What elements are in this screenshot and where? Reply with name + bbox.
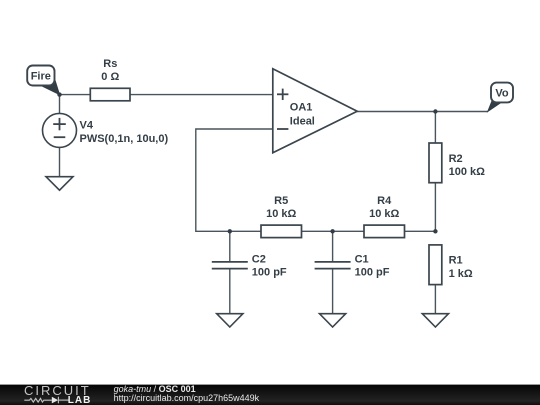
svg-text:Fire: Fire [31,71,51,83]
op-amp OA1 [273,69,357,153]
footer bar [0,385,540,405]
svg-text:Vo: Vo [495,88,509,100]
wire op-amp output to Vo [357,111,488,113]
junction R1-R2/rail [433,229,437,233]
node junction at Fire/V4 [57,92,61,96]
svg-text:100 pF: 100 pF [252,267,287,279]
svg-text:OA1: OA1 [290,101,313,113]
svg-text:C1: C1 [355,253,369,265]
svg-text:C2: C2 [252,253,266,265]
capacitor C1 [315,253,390,278]
wire V4 bottom to ground [59,147,61,176]
wire C1 top [332,231,334,262]
junction C1/rail [330,229,334,233]
wire feedback: op-amp minus input, down, and bottom rail [196,129,436,231]
wire V4 top (node to source) [59,95,61,114]
voltage source V4 [43,113,169,147]
resistor R2 [429,143,485,183]
ground (below R1) [422,314,448,327]
svg-text:Ideal: Ideal [290,116,315,128]
node label Vo [488,83,513,112]
wire C2 top [229,231,231,262]
ground (below V4) [46,177,73,191]
resistor R5 [261,195,302,238]
ground (below C1) [320,314,346,327]
svg-text:PWS(0,1n, 10u,0): PWS(0,1n, 10u,0) [80,133,169,145]
svg-text:Rs: Rs [103,58,117,70]
wire R2 bottom [434,183,436,232]
resistor R4 [364,195,405,238]
svg-text:R2: R2 [449,153,463,165]
svg-text:100 kΩ: 100 kΩ [449,166,486,178]
svg-text:10 kΩ: 10 kΩ [369,208,399,220]
svg-text:100 pF: 100 pF [355,267,390,279]
svg-text:R4: R4 [377,195,392,207]
svg-text:R5: R5 [274,195,288,207]
wire top rail from Rs to op-amp + input [130,94,273,96]
node label Fire [27,66,59,95]
ground (below C2) [217,314,243,327]
svg-text:1 kΩ: 1 kΩ [449,268,473,280]
svg-text:10 kΩ: 10 kΩ [266,208,296,220]
resistor R1 [429,245,473,285]
resistor Rs [90,58,130,101]
wire C2 bottom to ground [229,269,231,314]
junction C2/rail [228,229,232,233]
wire R2 top [434,112,436,144]
svg-text:LAB: LAB [68,395,92,405]
wire C1 bottom to ground [332,269,334,314]
capacitor C2 [212,253,287,278]
CircuitLab logo [24,383,91,405]
svg-text:http://circuitlab.com/cpu27h65: http://circuitlab.com/cpu27h65w449k [114,393,260,403]
svg-text:R1: R1 [449,255,463,267]
svg-text:0 Ω: 0 Ω [101,71,119,83]
svg-text:V4: V4 [80,120,94,132]
wire R1 bottom to ground [434,285,436,314]
wire top rail from Fire node to Rs [60,94,91,96]
junction at output node [433,109,437,113]
